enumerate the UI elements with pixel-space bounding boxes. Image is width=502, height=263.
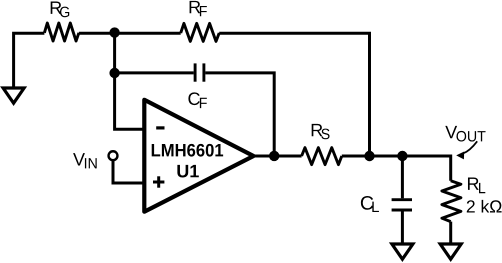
op-amp refdes U1 bbox=[177, 165, 198, 178]
resistor RF bbox=[181, 23, 220, 41]
wire: CL top lead bbox=[401, 156, 404, 198]
label CF bbox=[188, 92, 206, 108]
label VOUT bbox=[445, 126, 485, 142]
node junction dot (CL branch) bbox=[397, 151, 407, 161]
op-amp plus sign bbox=[153, 176, 164, 187]
ground (under RL) bbox=[440, 244, 461, 259]
resistor RL (vertical) bbox=[442, 181, 461, 222]
VIN terminal circle bbox=[109, 151, 118, 160]
wire: CF left lead bbox=[115, 71, 194, 74]
label RF bbox=[190, 1, 207, 16]
node junction dot (inverting net, top) bbox=[109, 27, 119, 37]
wire: CL bottom lead bbox=[401, 211, 404, 243]
wire: RS to VOUT corner, down to RL bbox=[342, 156, 451, 181]
ground (under CL) bbox=[392, 244, 413, 259]
node junction dot (RF feedback at output) bbox=[364, 151, 374, 161]
wire: op-amp output to RS bbox=[253, 155, 302, 158]
ground (left, input) bbox=[3, 88, 24, 103]
wire: RL bottom lead bbox=[449, 222, 452, 243]
label RL bbox=[468, 178, 485, 194]
label RG bbox=[51, 2, 70, 18]
wire: inverting input vertical bbox=[115, 33, 146, 129]
wire: input net corner from RG down to ground bbox=[14, 33, 45, 87]
resistor RG bbox=[44, 23, 79, 41]
wire: RG to RF bbox=[79, 32, 181, 35]
label VIN bbox=[73, 153, 97, 168]
op-amp U1 triangle bbox=[144, 100, 253, 212]
capacitor CL bbox=[392, 200, 412, 210]
resistor RS bbox=[302, 148, 342, 165]
node junction dot (CF to output) bbox=[269, 151, 279, 161]
label RS bbox=[312, 124, 330, 139]
label 2 kOhm bbox=[467, 200, 502, 213]
op-amp part number LMH6601 bbox=[152, 144, 223, 157]
label CL bbox=[361, 196, 379, 212]
op-amp minus sign bbox=[156, 126, 164, 129]
capacitor CF bbox=[195, 63, 204, 81]
wire: RF to output node (top right corner) bbox=[219, 33, 369, 156]
wire: VIN to non-inverting input bbox=[113, 160, 146, 183]
wire: CF right lead down to output bbox=[205, 73, 274, 156]
node junction dot (CF branch) bbox=[109, 68, 119, 78]
VOUT pointer arrowhead bbox=[456, 152, 464, 160]
VOUT pointer arrow tail bbox=[463, 141, 477, 153]
